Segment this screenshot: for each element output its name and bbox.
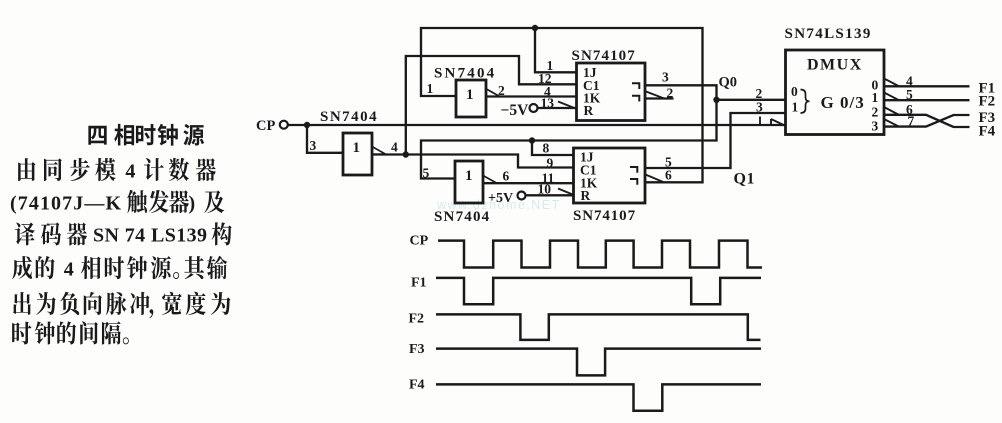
svg-text:SN74107: SN74107 bbox=[572, 48, 636, 64]
svg-text:F4: F4 bbox=[409, 378, 425, 393]
svg-text:3: 3 bbox=[872, 119, 879, 134]
svg-text:9: 9 bbox=[547, 156, 554, 171]
svg-text:7: 7 bbox=[908, 114, 915, 129]
svg-text:8: 8 bbox=[543, 141, 550, 156]
svg-text:F2: F2 bbox=[979, 94, 996, 110]
svg-text:Q1: Q1 bbox=[734, 171, 755, 188]
svg-text:10: 10 bbox=[538, 182, 552, 197]
svg-text:R: R bbox=[581, 188, 591, 203]
svg-text:3: 3 bbox=[662, 70, 669, 85]
svg-text:1: 1 bbox=[872, 90, 879, 105]
svg-text:F3: F3 bbox=[409, 342, 425, 357]
svg-text:1: 1 bbox=[427, 81, 434, 96]
svg-text:4: 4 bbox=[391, 140, 398, 155]
svg-text:3: 3 bbox=[310, 138, 317, 153]
svg-text:1: 1 bbox=[353, 140, 361, 156]
svg-text:1: 1 bbox=[792, 100, 799, 115]
svg-text:2: 2 bbox=[872, 105, 879, 120]
svg-text:DMUX: DMUX bbox=[807, 57, 863, 74]
svg-text:3: 3 bbox=[756, 100, 763, 115]
svg-text:4: 4 bbox=[906, 73, 913, 88]
svg-text:F1: F1 bbox=[411, 276, 427, 291]
svg-text:6: 6 bbox=[665, 168, 672, 183]
svg-text:): ) bbox=[189, 192, 196, 214]
svg-text:F2: F2 bbox=[409, 312, 425, 327]
svg-text:SN7404: SN7404 bbox=[434, 209, 490, 225]
svg-text:5: 5 bbox=[423, 166, 430, 181]
svg-text:SN74107: SN74107 bbox=[573, 208, 636, 224]
svg-text:+5V: +5V bbox=[488, 191, 513, 206]
svg-text:2: 2 bbox=[498, 83, 505, 98]
svg-text:SN 74 LS139: SN 74 LS139 bbox=[93, 225, 207, 247]
svg-text:(74107J—K: (74107J—K bbox=[10, 192, 122, 214]
svg-text:R: R bbox=[584, 103, 594, 118]
svg-text:13: 13 bbox=[541, 96, 555, 111]
svg-text:SN7404: SN7404 bbox=[320, 109, 378, 125]
svg-text:6: 6 bbox=[503, 169, 510, 184]
svg-text:1: 1 bbox=[465, 168, 473, 184]
svg-text:−5V: −5V bbox=[501, 102, 530, 119]
svg-text:SN74LS139: SN74LS139 bbox=[785, 26, 872, 42]
svg-text:Q0: Q0 bbox=[719, 75, 738, 91]
svg-text:2: 2 bbox=[667, 86, 674, 101]
svg-text:CP: CP bbox=[410, 234, 429, 249]
svg-text:1: 1 bbox=[466, 87, 474, 103]
svg-text:5: 5 bbox=[906, 87, 913, 102]
svg-text:G 0/3: G 0/3 bbox=[821, 93, 865, 112]
svg-text:4: 4 bbox=[64, 258, 74, 280]
svg-text:CP: CP bbox=[256, 118, 275, 134]
svg-text:F4: F4 bbox=[979, 124, 996, 140]
svg-text:4: 4 bbox=[125, 160, 135, 182]
svg-text:0: 0 bbox=[791, 84, 798, 99]
